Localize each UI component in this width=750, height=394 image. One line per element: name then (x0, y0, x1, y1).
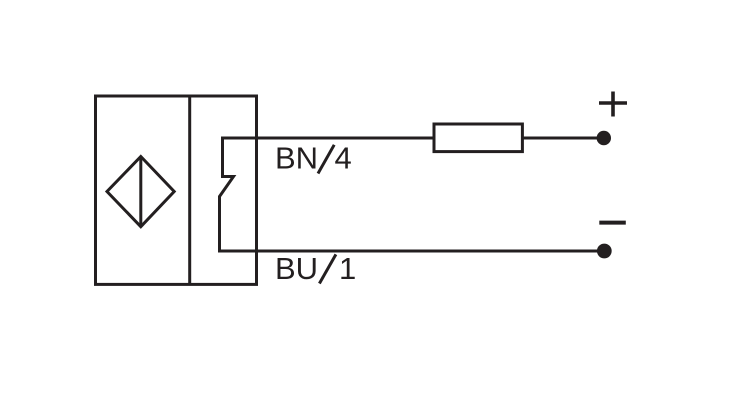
terminal dot - (597, 244, 612, 259)
svg-text:BU: BU (275, 251, 318, 286)
label BN/4 (275, 141, 352, 176)
sensor body box (96, 96, 257, 284)
svg-text:1: 1 (339, 251, 356, 286)
minus symbol (599, 221, 626, 225)
wire BU/1 from connector to - terminal (218, 250, 600, 253)
proximity sensor symbol (diamond) (107, 157, 174, 227)
label BU/1 (275, 251, 356, 286)
svg-text:BN: BN (275, 141, 318, 176)
svg-text:4: 4 (335, 141, 352, 176)
wire BN/4 from connector to resistor (221, 137, 434, 140)
resistor R (434, 124, 522, 152)
plus symbol (599, 92, 627, 117)
connector symbol with break notch (220, 138, 234, 251)
wire from resistor to + terminal (522, 137, 600, 140)
terminal dot + (597, 131, 611, 145)
sensor body divider (188, 96, 191, 284)
